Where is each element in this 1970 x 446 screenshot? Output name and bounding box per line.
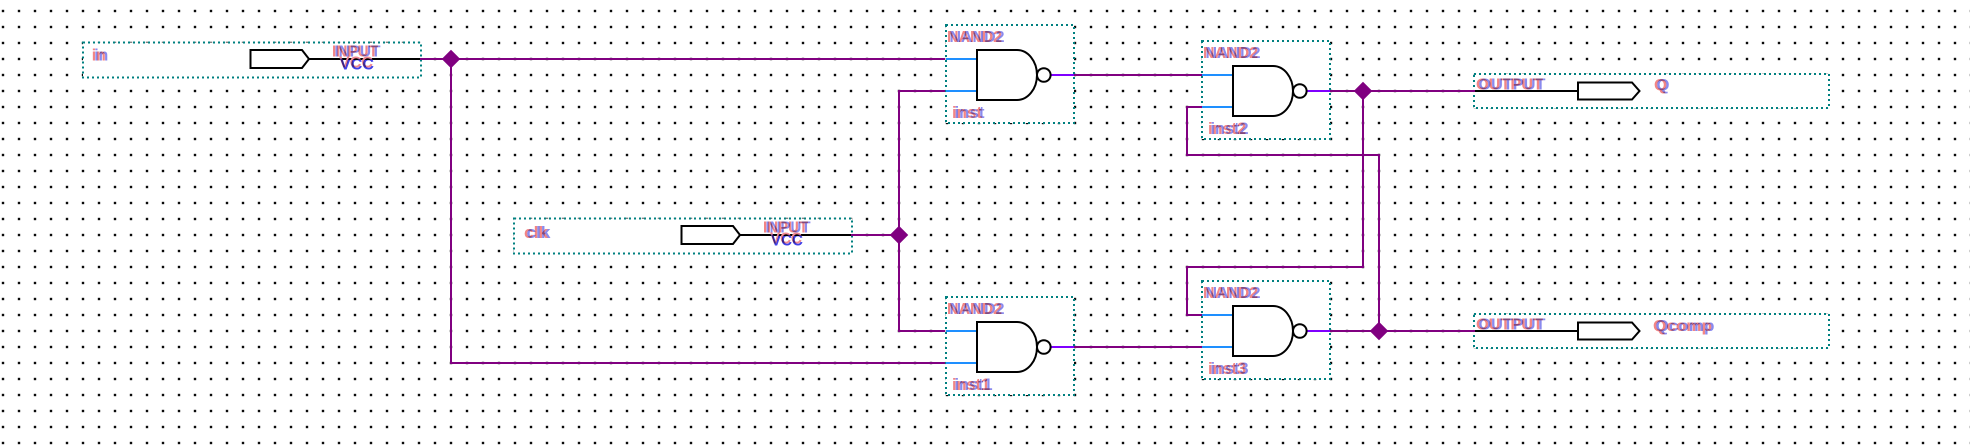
label NAND2 of inst1 [947,301,1005,318]
NAND2 gate inst3 [1202,306,1330,356]
input pin clk symbol [682,226,852,244]
selection box NAND2 inst [946,25,1074,123]
wire inst1.out to inst3.in2 [1074,346,1203,348]
label Q [1654,77,1670,94]
svg-text:clk: clk [524,223,549,242]
wire clk to inst1.in1 [899,235,945,331]
svg-text:OUTPUT: OUTPUT [1476,77,1543,94]
svg-text:NAND2: NAND2 [1203,45,1258,62]
svg-text:VCC: VCC [340,57,374,74]
svg-text:inst1: inst1 [952,375,990,394]
label OUTPUT of Q [1476,77,1546,94]
svg-text:inst2: inst2 [1208,119,1246,138]
junction node in [442,50,461,69]
wire clk to inst.in2 [899,91,945,235]
label INPUT of clk [763,220,811,237]
label INPUT of in [332,44,381,61]
junction node clk [890,226,909,245]
NAND2 gate inst1 [946,322,1074,372]
label NAND2 of inst [947,29,1005,46]
label VCC of in [339,55,374,74]
selection box NAND2 inst3 [1202,281,1330,379]
svg-text:Q: Q [1654,77,1667,94]
selection box output pin Q [1474,74,1829,108]
selection box output pin Qcomp [1474,314,1829,348]
junction node Q [1354,82,1373,101]
svg-text:in: in [92,46,106,65]
wire inst3.out to OUTPUT Qcomp [1330,330,1475,332]
label VCC of clk [770,231,803,250]
svg-text:inst3: inst3 [1208,359,1246,378]
label inst2 [1208,119,1249,138]
wire inst2.out feedback to inst3.in1 [1187,91,1363,315]
label inst [952,103,985,122]
svg-text:Qcomp: Qcomp [1653,318,1712,335]
label inst3 [1208,359,1249,378]
wire in to inst.in1 [420,58,945,60]
selection box input pin in [83,43,421,78]
NAND2 gate inst2 [1202,66,1330,116]
svg-text:OUTPUT: OUTPUT [1476,317,1543,334]
svg-text:NAND2: NAND2 [947,29,1002,46]
wire in to inst1.in2 [451,59,945,363]
wire inst.out to inst2.in1 [1074,74,1203,76]
output pin Q symbol [1475,83,1640,100]
label NAND2 of inst2 [1203,45,1261,62]
wire inst3.out feedback to inst2.in2 [1187,107,1379,331]
selection box NAND2 inst2 [1202,41,1330,139]
svg-text:inst: inst [952,103,982,122]
label OUTPUT of Qcomp [1476,317,1546,334]
label Qcomp [1653,318,1715,335]
label clk [524,223,551,242]
junction node Qcomp [1370,322,1389,341]
svg-text:NAND2: NAND2 [947,301,1002,318]
label inst1 [952,375,993,394]
svg-text:NAND2: NAND2 [1203,285,1258,302]
label NAND2 of inst3 [1203,285,1261,302]
wire inst2.out to OUTPUT Q [1330,90,1475,92]
NAND2 gate inst [946,50,1074,100]
selection box NAND2 inst1 [946,297,1074,395]
input pin in symbol [251,50,421,68]
selection box input pin clk [514,219,852,254]
svg-text:VCC: VCC [771,233,803,250]
output pin Qcomp symbol [1475,323,1640,340]
label in [92,46,109,65]
wire clk to junction [851,234,899,236]
